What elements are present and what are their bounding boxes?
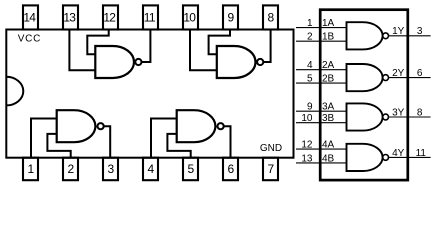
svg-text:2B: 2B — [322, 74, 335, 85]
svg-text:2Y: 2Y — [392, 68, 405, 79]
svg-text:9: 9 — [228, 10, 235, 24]
wire 1B (pin 2) — [296, 40, 347, 42]
wire G4 output to pin 11 — [142, 30, 151, 63]
wire pin1 to G1 input A — [31, 119, 57, 158]
svg-text:4A: 4A — [322, 140, 335, 151]
gate 4 row: 4A,4B -> 4Y — [296, 140, 431, 172]
svg-text:5: 5 — [307, 74, 313, 85]
pin 4 — [143, 158, 158, 181]
svg-text:11: 11 — [144, 10, 156, 24]
svg-text:3: 3 — [417, 26, 423, 37]
svg-text:3: 3 — [108, 162, 115, 176]
wire G2 output to pin 6 — [224, 126, 231, 158]
wire 1A (pin 1) — [296, 27, 347, 29]
svg-text:10: 10 — [183, 10, 196, 24]
NAND gate G1 (pins 1,2 -> 3) — [57, 110, 104, 142]
op gate U1B — [347, 64, 383, 91]
wire pin5 to G2 input B — [167, 134, 190, 158]
op gate U1A — [347, 22, 383, 49]
svg-text:12: 12 — [301, 140, 313, 151]
wire G3 output to pin 8 — [263, 30, 270, 63]
wire G1 output to pin 3 — [104, 126, 111, 158]
svg-text:6: 6 — [417, 68, 423, 79]
wire pin2 to G1 input B — [47, 134, 70, 158]
wire pin4 to G2 input A — [151, 119, 177, 158]
svg-text:2A: 2A — [322, 60, 335, 71]
svg-text:12: 12 — [103, 10, 116, 24]
svg-text:VCC: VCC — [18, 33, 41, 44]
index notch — [6, 77, 23, 106]
wire pin12 to G4 input A — [87, 30, 108, 55]
svg-text:6: 6 — [228, 162, 235, 176]
svg-text:9: 9 — [307, 102, 313, 113]
op gate U1D — [347, 144, 383, 171]
NAND gate G4 (pins 13,12 -> 11) — [95, 46, 141, 78]
svg-text:8: 8 — [268, 10, 275, 24]
gate 2 row: 2A,2B -> 2Y — [296, 60, 431, 91]
svg-text:3A: 3A — [322, 102, 335, 113]
wire 1Y out — [389, 35, 431, 37]
svg-text:3B: 3B — [322, 113, 335, 124]
wire pin13 to G4 input B — [69, 30, 95, 71]
gate 3 row: 3A,3B -> 3Y — [296, 102, 431, 131]
pin 11 — [143, 5, 158, 29]
gate 1 row: 1A,1B -> 1Y — [296, 18, 431, 49]
svg-text:4: 4 — [148, 162, 155, 176]
pin 5 — [183, 158, 198, 181]
svg-text:4Y: 4Y — [392, 148, 405, 159]
svg-text:4: 4 — [307, 60, 313, 71]
pin 14 — [23, 5, 38, 29]
wire 2B (pin 5) — [296, 82, 347, 84]
svg-text:10: 10 — [301, 113, 313, 124]
pin 1 — [23, 158, 38, 181]
wire 3A (pin 9) — [296, 110, 347, 112]
svg-text:GND: GND — [260, 143, 282, 154]
svg-text:14: 14 — [23, 10, 36, 24]
IC package U1 (DIP-14 top view) — [6, 30, 293, 158]
wire 2A (pin 4) — [296, 69, 347, 71]
op gate U1C — [347, 103, 383, 130]
svg-text:2: 2 — [68, 162, 75, 176]
NAND gate G3 (pins 10,9 -> 8) — [217, 46, 264, 78]
NAND gate G2 (pins 4,5 -> 6) — [177, 110, 224, 142]
pin 9 — [223, 5, 238, 29]
svg-text:2: 2 — [307, 32, 313, 43]
pin 10 — [183, 5, 198, 29]
pin 12 — [103, 5, 118, 29]
wire 3B (pin 10) — [296, 122, 347, 124]
wire 4Y out — [389, 156, 431, 158]
svg-text:1A: 1A — [322, 18, 335, 29]
svg-text:13: 13 — [301, 153, 313, 164]
wire 4B (pin 13) — [296, 162, 347, 164]
wire 3Y out — [389, 116, 431, 118]
wire pin10 to G3 input B — [190, 30, 217, 71]
pin 7 — [263, 158, 278, 181]
pin 3 — [103, 158, 118, 181]
pin 6 — [223, 158, 238, 181]
pin 2 — [63, 158, 78, 181]
svg-text:1: 1 — [28, 162, 35, 176]
svg-text:1B: 1B — [322, 32, 335, 43]
wire 4A (pin 12) — [296, 148, 347, 150]
pin 8 — [263, 5, 278, 29]
wire 2Y out — [389, 77, 431, 79]
svg-text:1: 1 — [307, 18, 313, 29]
svg-text:1Y: 1Y — [392, 26, 405, 37]
svg-text:4B: 4B — [322, 153, 335, 164]
svg-text:7: 7 — [268, 162, 275, 176]
svg-text:13: 13 — [63, 10, 76, 24]
pin 13 — [63, 5, 78, 29]
wire pin9 to G3 input A — [209, 30, 230, 55]
svg-text:5: 5 — [188, 162, 195, 176]
svg-text:8: 8 — [417, 107, 423, 118]
logic diagram box — [320, 10, 408, 180]
svg-text:3Y: 3Y — [392, 107, 405, 118]
svg-text:11: 11 — [416, 148, 427, 159]
